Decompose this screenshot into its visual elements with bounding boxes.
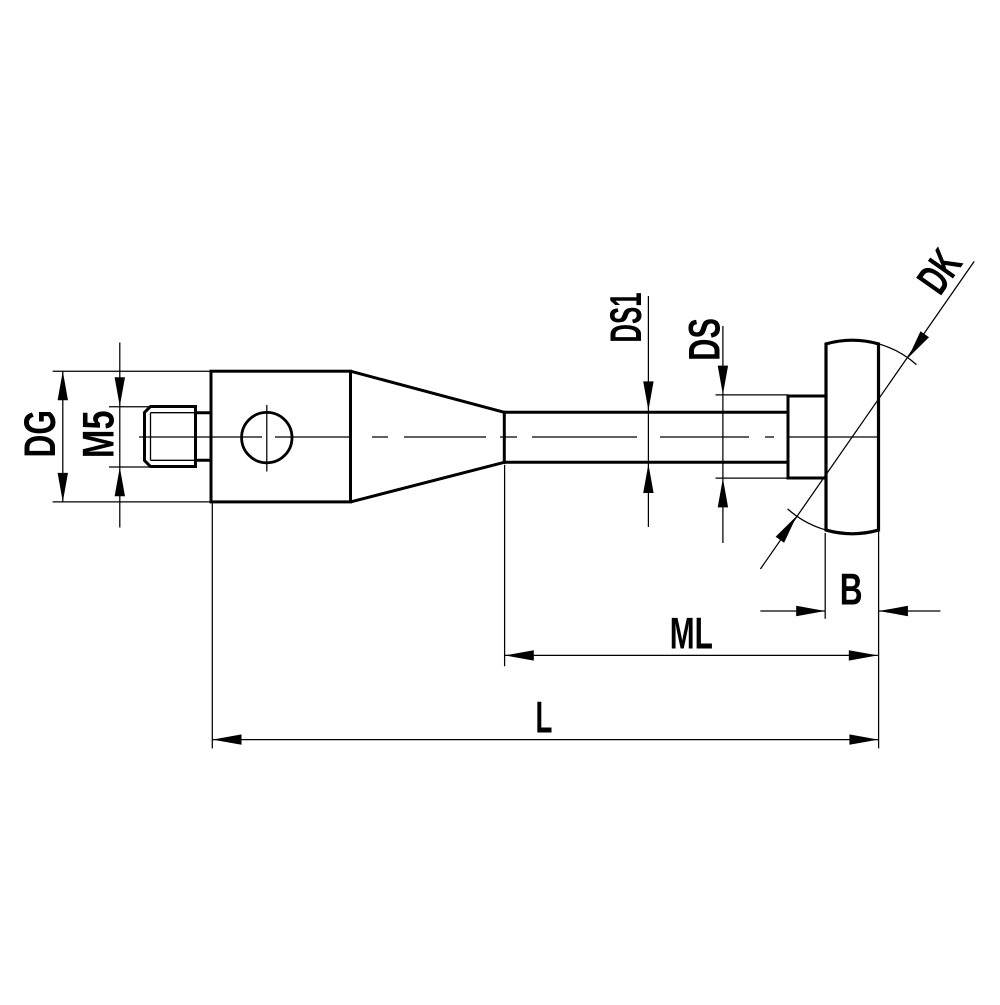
body hole: [242, 412, 292, 462]
svg-text:M5: M5: [74, 411, 123, 459]
DK arrowhead bottom: [776, 516, 797, 543]
ML dimension line: [505, 654, 878, 656]
taper cone: [351, 371, 505, 412]
B dimension line left part: [760, 610, 825, 612]
L arrowhead left: [213, 734, 242, 744]
DG extension line bottom: [53, 501, 211, 503]
collar: [787, 395, 790, 480]
DG extension line top: [53, 370, 211, 372]
DS arrowhead bottom: [718, 478, 728, 507]
B extension line left: [824, 533, 826, 619]
thread root lines: [151, 412, 196, 414]
centerline axis: [139, 436, 262, 438]
svg-text:L: L: [535, 691, 552, 741]
svg-text:DG: DG: [16, 410, 66, 457]
DS extension line bottom: [716, 477, 789, 479]
DS1 arrowhead top: [643, 381, 653, 410]
svg-text:B: B: [840, 565, 863, 615]
DS1 arrowhead bottom: [643, 464, 653, 493]
B arrowhead left: [796, 606, 825, 616]
B dimension line right part: [879, 610, 941, 612]
body block: [211, 371, 351, 502]
DK dimension arc bottom left: [788, 509, 861, 534]
neck: [194, 411, 211, 414]
DG arrowhead top: [58, 371, 68, 400]
DG dimension line: [62, 371, 64, 502]
M5 extension line top: [109, 406, 150, 408]
L dimension line: [213, 739, 879, 741]
svg-text:ML: ML: [670, 610, 713, 659]
DS1 dimension line: [647, 296, 649, 527]
M5 dimension line: [119, 343, 121, 528]
ML extension line left: [504, 465, 506, 666]
svg-text:DS1: DS1: [601, 292, 651, 342]
hole vertical crosshair: [266, 405, 268, 472]
B arrowhead right: [879, 606, 908, 616]
L arrowhead right: [849, 734, 878, 744]
DK dimension arc top right: [869, 342, 916, 365]
ML arrowhead right: [849, 650, 878, 660]
DK arrowhead top: [908, 331, 929, 358]
DK dimension line: [760, 261, 974, 569]
ML arrowhead left: [505, 650, 534, 660]
stem shaft: [504, 411, 788, 414]
L extension line left: [211, 503, 213, 748]
DG arrowhead bottom: [58, 473, 68, 502]
M5 arrowhead top: [115, 377, 125, 406]
right shared extension line: [878, 532, 880, 749]
DS extension line top: [716, 394, 789, 396]
M5 extension line bottom: [109, 466, 150, 468]
disc stylus tip: [826, 340, 879, 533]
thread M5 outline: [145, 407, 196, 467]
DS arrowhead top: [718, 366, 728, 395]
M5 arrowhead bottom: [115, 467, 125, 496]
DS dimension line: [722, 326, 724, 543]
svg-text:DS: DS: [680, 318, 730, 361]
